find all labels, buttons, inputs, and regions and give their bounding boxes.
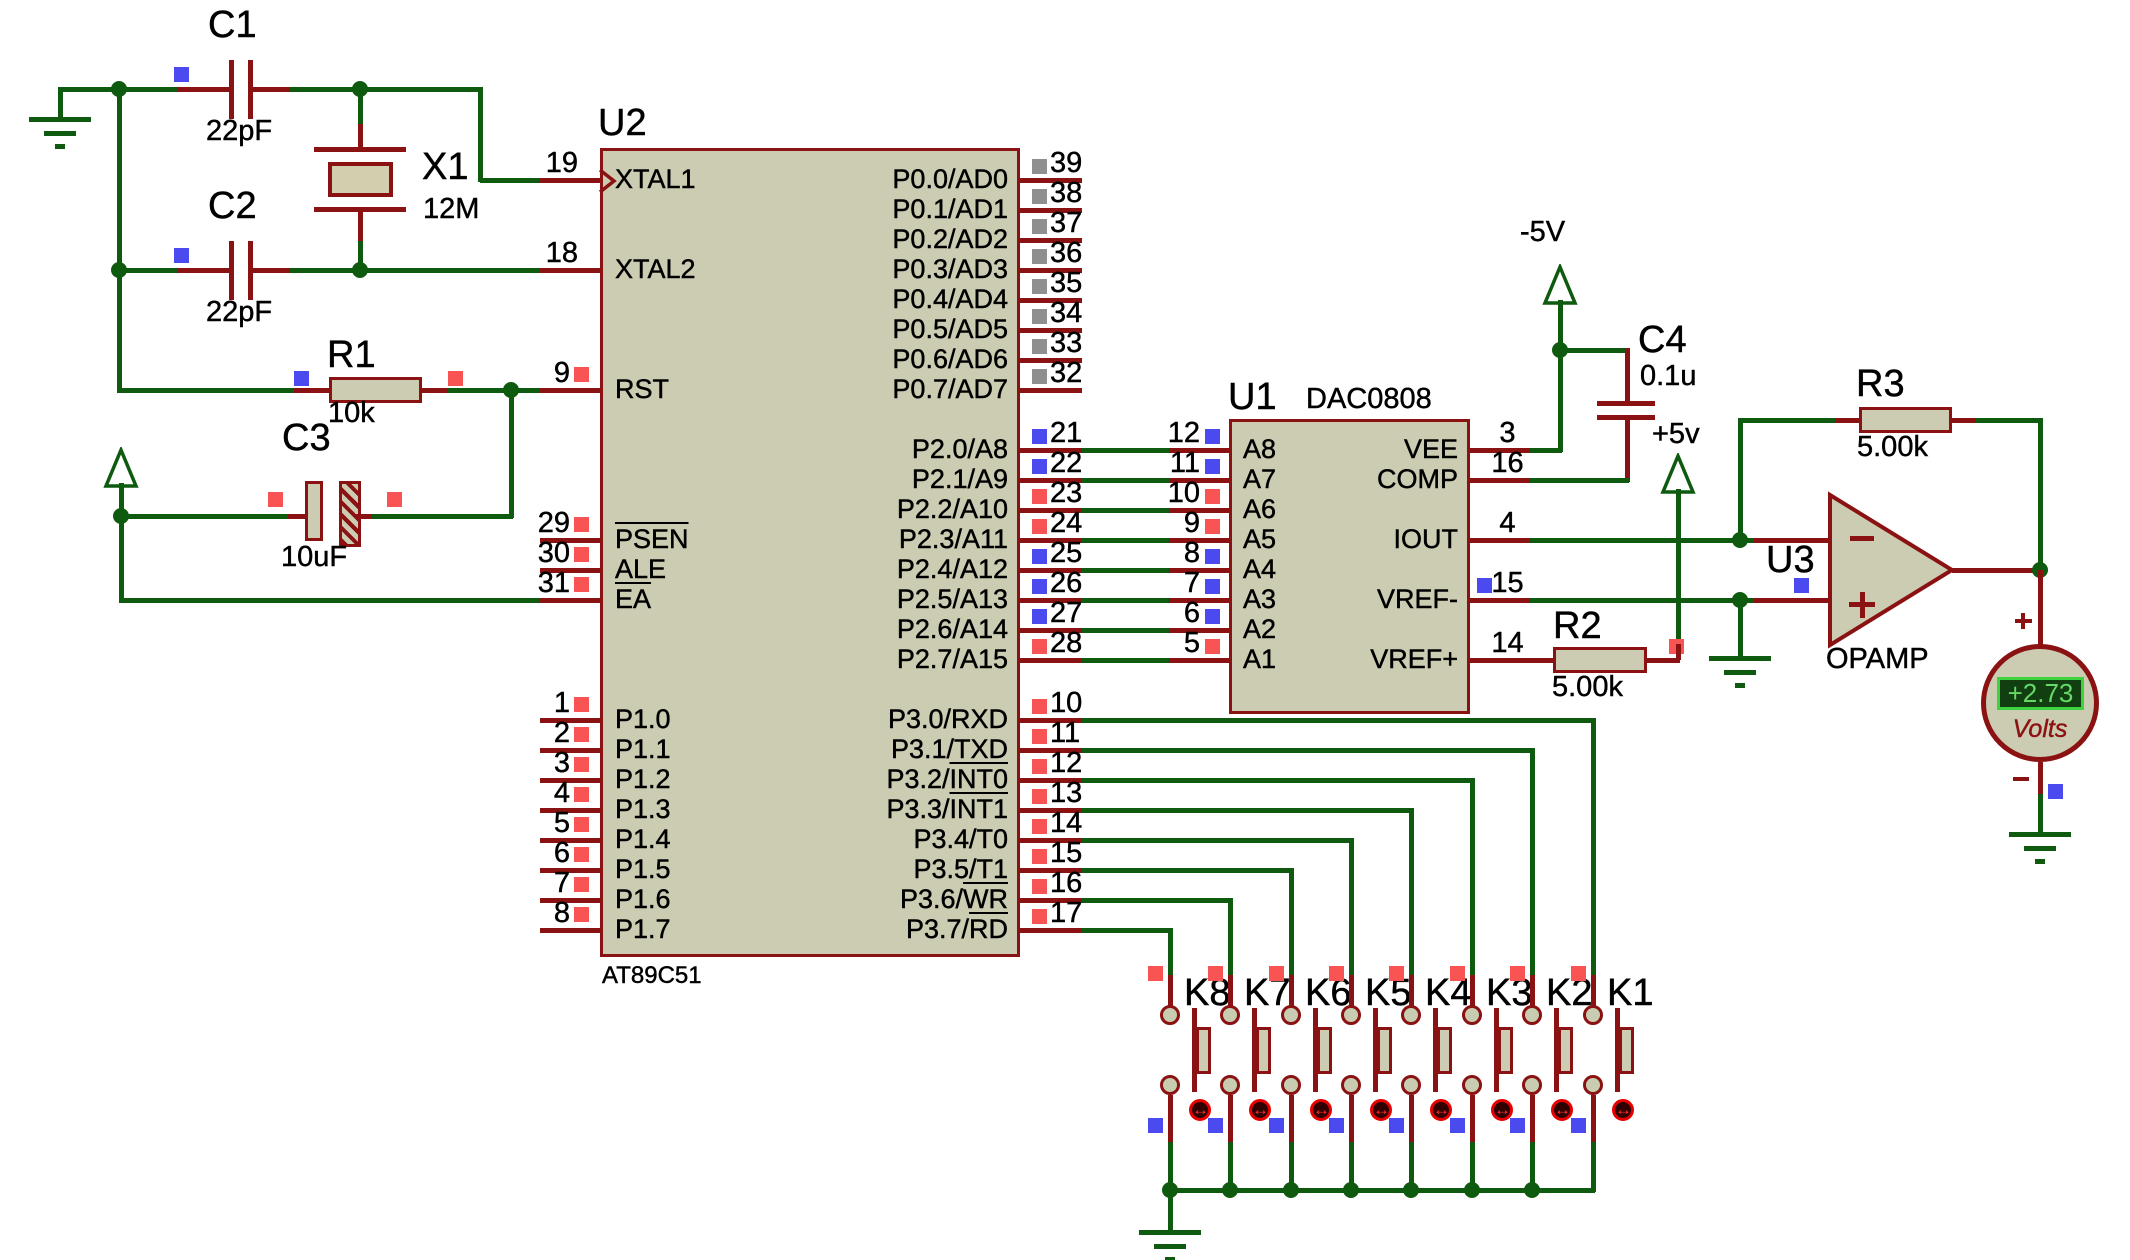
value DAC0808	[1306, 385, 1432, 414]
push button K7	[1208, 966, 1223, 981]
power terminal -5V	[1520, 218, 1565, 247]
push button K3	[1450, 966, 1465, 981]
U2 pin 39 P0.0/AD0 lead	[1020, 178, 1082, 183]
U2 pin 18 XTAL2 lead	[540, 268, 600, 273]
wire P2.5/A13 to DAC A3	[1082, 598, 1169, 603]
push button K2	[1510, 966, 1525, 981]
wire P3.0 to key K1	[1082, 718, 1595, 723]
U2 pin 33 P0.6/AD6 lead	[1020, 358, 1082, 363]
label U2	[598, 104, 647, 142]
wire arrow stub / rail down to EA row	[119, 483, 124, 602]
wire feedback up to R3	[1738, 418, 1743, 542]
label C1	[208, 6, 257, 44]
U1 pin 6 A2 lead	[1169, 628, 1229, 633]
U2 pin 25 P2.4/A12 lead	[1020, 568, 1082, 573]
label K4	[1425, 974, 1471, 1012]
wire C2 to XTAL2	[290, 268, 542, 273]
U2 pin 2 P1.1 lead	[540, 748, 600, 753]
node C2 junction	[111, 262, 127, 278]
U2 pin 28 P2.7/A15 lead	[1020, 658, 1082, 663]
U2 pin 13 P3.3/<spa lead	[1020, 808, 1082, 813]
actuator knob K4	[1430, 1099, 1452, 1121]
U2 pin 30 ALE lead	[540, 568, 600, 573]
wire K7 to bus	[1228, 1142, 1233, 1192]
label K2	[1546, 974, 1592, 1012]
U1 pin 11 A7 lead	[1169, 478, 1229, 483]
node bus junction	[1464, 1182, 1480, 1198]
value 0.1u	[1640, 362, 1696, 391]
actuator knob K8	[1189, 1099, 1211, 1121]
U1 pin 10 A6 lead	[1169, 508, 1229, 513]
voltmeter - lead	[2038, 762, 2043, 794]
U2 pin 5 P1.4 lead	[540, 838, 600, 843]
value 22pF (C1)	[206, 117, 272, 146]
state indicator C3 left (red)	[268, 492, 283, 507]
left rail C1-C2-R1	[117, 87, 122, 392]
resistor R1	[294, 388, 329, 393]
wire C4 to COMP	[1530, 478, 1629, 483]
actuator knob K3	[1491, 1099, 1513, 1121]
wire P2.3/A11 to DAC A5	[1082, 538, 1169, 543]
wire P2.0/A8 to DAC A8	[1082, 448, 1169, 453]
wire non-inverting input to ground	[1738, 600, 1743, 658]
push button K1	[1571, 966, 1586, 981]
capacitor C1	[178, 87, 231, 92]
wire C1 to X1 top	[290, 87, 482, 92]
U2 pin 12 P3.2/<spa lead	[1020, 778, 1082, 783]
node X1 bottom junction	[352, 262, 368, 278]
voltmeter label Volts	[2000, 717, 2080, 742]
wire P2.2/A10 to DAC A6	[1082, 508, 1169, 513]
wire C3 to RST junction	[371, 514, 513, 519]
wire K1 to bus	[1591, 1142, 1596, 1192]
U2 pin 38 P0.1/AD1 lead	[1020, 208, 1082, 213]
U2 pin 17 P3.7/<spa lead	[1020, 928, 1082, 933]
state indicator K5 bottom (blue)	[1329, 1118, 1344, 1133]
wire P2.7/A15 to DAC A1	[1082, 658, 1169, 663]
value AT89C51	[602, 964, 702, 988]
U2 pin 32 P0.7/AD7 lead	[1020, 388, 1082, 393]
actuator knob K1	[1612, 1099, 1634, 1121]
value 5.00k (R3)	[1857, 433, 1928, 462]
U2 pin 22 P2.1/A9 lead	[1020, 478, 1082, 483]
wire RST junction down to C3	[509, 388, 514, 518]
U1 pin 7 A3 lead	[1169, 598, 1229, 603]
label C2	[208, 187, 257, 225]
state indicator voltmeter - (blue)	[2048, 784, 2063, 799]
wire P3.5 to key K6	[1082, 868, 1293, 873]
wire R1 row left	[117, 388, 296, 393]
wire K6 to bus	[1289, 1142, 1294, 1192]
wire P2.6/A14 to DAC A2	[1082, 628, 1169, 633]
node RST junction	[503, 382, 519, 398]
wire opamp output	[1952, 568, 2040, 573]
wire key common bus	[1168, 1188, 1595, 1193]
actuator knob K2	[1551, 1099, 1573, 1121]
U2 pin 3 P1.2 lead	[540, 778, 600, 783]
label C3	[282, 419, 331, 457]
node bus junction	[1162, 1182, 1178, 1198]
state indicator C3 right (red)	[387, 492, 402, 507]
node bus junction	[1343, 1182, 1359, 1198]
wire -5V to VEE	[1558, 348, 1563, 452]
value 22pF (C2)	[206, 298, 272, 327]
wire P3.6 to key K7	[1082, 898, 1232, 903]
label U3	[1766, 541, 1815, 579]
U1 pin 5 A1 lead	[1169, 658, 1229, 663]
wire voltmeter to ground	[2038, 794, 2043, 834]
U2 pin 29 PSEN lead	[540, 538, 600, 543]
state indicator VREF- (blue)	[1477, 578, 1492, 593]
ground (key bus)	[1139, 1230, 1201, 1235]
label R2	[1553, 607, 1602, 645]
actuator knob K5	[1370, 1099, 1392, 1121]
capacitor C3 (polarized)	[288, 514, 305, 519]
U2 pin 15 P3.5/T1 lead	[1020, 868, 1082, 873]
node bus junction	[1283, 1182, 1299, 1198]
U2 pin 7 P1.6 lead	[540, 898, 600, 903]
label X1	[422, 148, 468, 186]
label K7	[1244, 974, 1290, 1012]
U2 pin 27 P2.6/A14 lead	[1020, 628, 1082, 633]
U2 pin 6 P1.5 lead	[540, 868, 600, 873]
state indicator K6 bottom (blue)	[1269, 1118, 1284, 1133]
wire K3 to bus	[1470, 1142, 1475, 1192]
opamp minus symbol	[1850, 536, 1874, 541]
value 10uF	[281, 543, 347, 572]
node -5V junction	[1552, 342, 1568, 358]
U2 pin 9 RST lead	[540, 388, 600, 393]
U1 pin 9 A5 lead	[1169, 538, 1229, 543]
U1 pin 3 VEE lead	[1470, 448, 1530, 453]
push button K8	[1148, 966, 1163, 981]
microcontroller U2 AT89C51 body	[600, 148, 1020, 957]
state indicator C2 left (blue)	[174, 248, 189, 263]
wire +5v down to R2	[1676, 489, 1681, 648]
state indicator C1 left (blue)	[174, 67, 189, 82]
state indicator K4 bottom (blue)	[1389, 1118, 1404, 1133]
U2 pin 23 P2.2/A10 lead	[1020, 508, 1082, 513]
label C4	[1638, 321, 1687, 359]
U1 pin 16 COMP lead	[1470, 478, 1530, 483]
wire R3 to output node	[1976, 418, 2042, 423]
voltmeter + lead	[2038, 570, 2043, 645]
U1 pin 8 A4 lead	[1169, 568, 1229, 573]
wire K2 to bus	[1530, 1142, 1535, 1192]
state indicator K2 bottom (blue)	[1510, 1118, 1525, 1133]
ground (voltmeter)	[2009, 832, 2071, 837]
node C1-left junction	[111, 81, 127, 97]
voltmeter body	[1981, 644, 2099, 762]
U2 pin 24 P2.3/A11 lead	[1020, 538, 1082, 543]
wire P3.3 to key K4	[1082, 808, 1413, 813]
label K3	[1486, 974, 1532, 1012]
capacitor C2	[178, 268, 231, 273]
state indicator K1 bottom (blue)	[1571, 1118, 1586, 1133]
voltmeter plus sign	[2015, 619, 2032, 623]
node C3 junction	[113, 508, 129, 524]
node inverting input junction	[1732, 532, 1748, 548]
crystal X1	[358, 89, 363, 124]
ground (opamp +input)	[1709, 656, 1771, 661]
label R3	[1856, 365, 1905, 403]
node bus junction	[1222, 1182, 1238, 1198]
power terminal arrow (C3 rail)	[103, 447, 139, 489]
U1 pin 4 IOUT lead	[1470, 538, 1530, 543]
wire K5 to bus	[1349, 1142, 1354, 1192]
value 12M	[423, 195, 479, 224]
U2 pin 4 P1.3 lead	[540, 808, 600, 813]
value OPAMP	[1826, 645, 1929, 674]
state indicator K8 bottom (blue)	[1148, 1118, 1163, 1133]
U2 pin 36 P0.3/AD3 lead	[1020, 268, 1082, 273]
U2 pin 10 P3.0/RXD lead	[1020, 718, 1082, 723]
actuator knob K6	[1310, 1099, 1332, 1121]
node bus junction	[1524, 1182, 1540, 1198]
resistor R3	[1836, 418, 1859, 423]
wire C2 row left	[117, 268, 182, 273]
wire corner down to XTAL1	[478, 87, 483, 182]
U1 pin 15 VREF- lead	[1470, 598, 1530, 603]
wire bus to ground	[1168, 1190, 1173, 1232]
voltmeter display +2.73	[1997, 677, 2084, 710]
U2 pin 26 P2.5/A13 lead	[1020, 598, 1082, 603]
U2 pin 21 P2.0/A8 lead	[1020, 448, 1082, 453]
U2 pin 34 P0.5/AD5 lead	[1020, 328, 1082, 333]
wire P3.4 to key K5	[1082, 838, 1353, 843]
state indicator R1 right (red)	[448, 371, 463, 386]
wire C3 row left	[119, 514, 290, 519]
label K5	[1365, 974, 1411, 1012]
label K6	[1305, 974, 1351, 1012]
wire K8 to bus	[1168, 1142, 1173, 1192]
U2 pin 35 P0.4/AD4 lead	[1020, 298, 1082, 303]
U1 pin 14 VREF+ lead	[1470, 658, 1530, 663]
value 5.00k (R2)	[1552, 673, 1623, 702]
label U1	[1228, 378, 1277, 416]
wire P2.4/A12 to DAC A4	[1082, 568, 1169, 573]
U2 pin 1 P1.0 lead	[540, 718, 600, 723]
ground (top-left)	[58, 89, 63, 119]
wire P3.1 to key K2	[1082, 748, 1534, 753]
state indicator R2 right (red)	[1669, 639, 1684, 654]
wire K4 to bus	[1409, 1142, 1414, 1192]
push button K6	[1269, 966, 1284, 981]
label R1	[327, 336, 376, 374]
op-amp U3	[1825, 490, 1960, 650]
resistor R2	[1470, 658, 1553, 663]
DAC U1 DAC0808 body	[1229, 419, 1470, 714]
wire P3.7 to key K8	[1082, 928, 1172, 933]
U2 pin 14 P3.4/T0 lead	[1020, 838, 1082, 843]
push button K4	[1389, 966, 1404, 981]
voltmeter minus sign	[2013, 777, 2029, 781]
wire R1 to RST	[448, 388, 542, 393]
value 10k	[328, 399, 375, 428]
state indicator R1 left (blue)	[294, 371, 309, 386]
capacitor C4	[1625, 348, 1630, 403]
power terminal +5v	[1652, 420, 1700, 449]
node non-inverting input junction	[1732, 592, 1748, 608]
U2 pin 16 P3.6/<spa lead	[1020, 898, 1082, 903]
wire EA row	[119, 598, 542, 603]
U2 pin 37 P0.2/AD2 lead	[1020, 238, 1082, 243]
actuator knob K7	[1249, 1099, 1271, 1121]
wire VREF- to opamp non-inverting input	[1530, 598, 1754, 603]
state indicator K3 bottom (blue)	[1450, 1118, 1465, 1133]
U2 pin 8 P1.7 lead	[540, 928, 600, 933]
state indicator K7 bottom (blue)	[1208, 1118, 1223, 1133]
label K8	[1184, 974, 1230, 1012]
wire IOUT to opamp inverting input	[1530, 538, 1754, 543]
wire -5V junction to C4	[1558, 348, 1629, 353]
wire P3.2 to key K3	[1082, 778, 1474, 783]
label K1	[1607, 974, 1653, 1012]
U2 pin 31 EA lead	[540, 598, 600, 603]
push button K5	[1329, 966, 1344, 981]
state indicator U3 +input (blue)	[1794, 578, 1809, 593]
node output junction	[2032, 562, 2048, 578]
node X1 top junction	[352, 81, 368, 97]
wire net XTAL1/C1 left segment	[58, 87, 182, 92]
opamp plus symbol	[1849, 602, 1875, 607]
U1 pin 12 A8 lead	[1169, 448, 1229, 453]
node bus junction	[1403, 1182, 1419, 1198]
U2 pin 19 XTAL1 lead	[540, 178, 600, 183]
wire P2.1/A9 to DAC A7	[1082, 478, 1169, 483]
U2 pin 11 P3.1/TXD lead	[1020, 748, 1082, 753]
clock input marker XTAL1	[598, 168, 618, 194]
